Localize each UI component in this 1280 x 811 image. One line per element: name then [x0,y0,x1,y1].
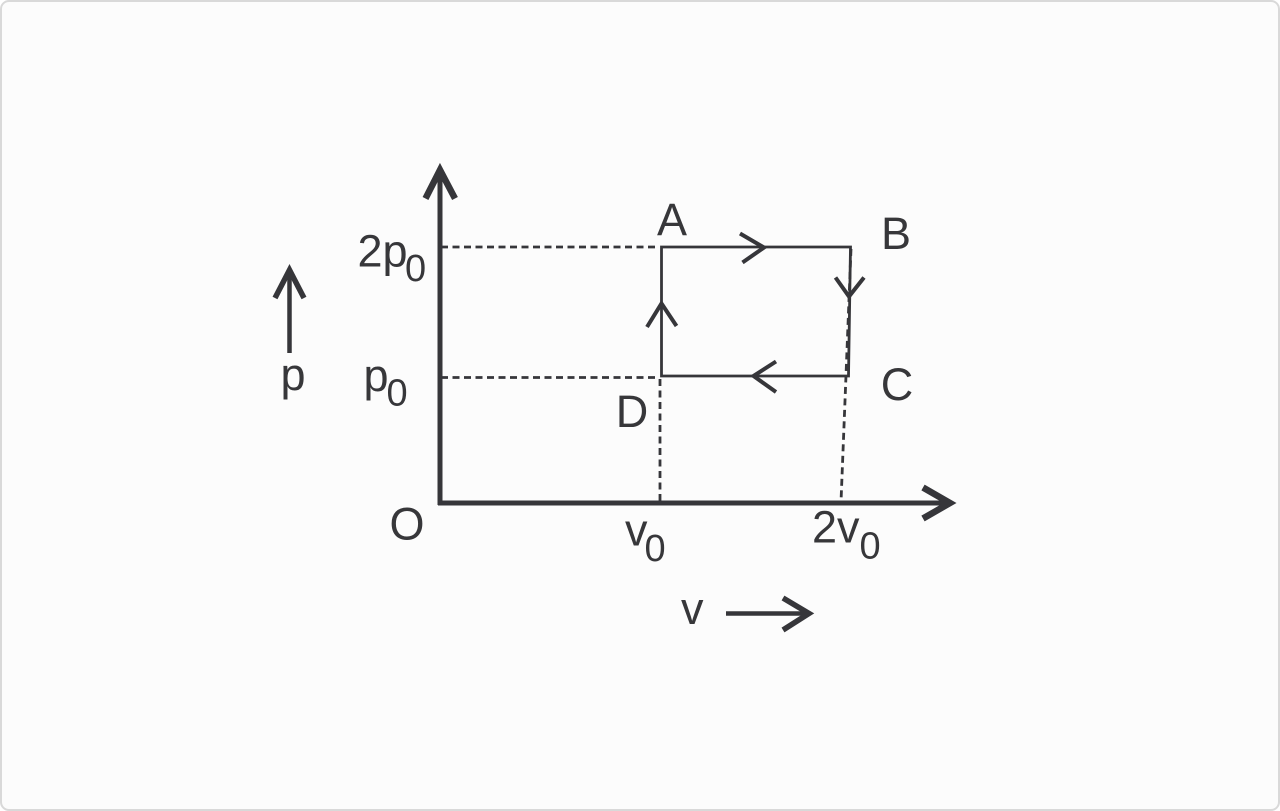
svg-text:v: v [681,583,704,634]
v axis arrow [726,598,809,630]
svg-text:0: 0 [405,248,426,290]
svg-text:A: A [657,194,687,245]
svg-text:p: p [281,349,306,400]
dashed line v0 [659,379,662,502]
arrow C to D [754,362,777,393]
dashed line 2p0 level [441,246,659,249]
svg-text:2v: 2v [812,502,860,553]
arrow B to C [836,278,865,297]
svg-text:0: 0 [387,373,408,415]
cycle rectangle ABCD [662,247,851,376]
svg-text:0: 0 [860,526,881,568]
svg-text:C: C [881,359,914,410]
p axis arrow [275,270,304,353]
svg-text:p: p [364,350,389,401]
dashed line 2v0 [841,249,851,502]
svg-text:B: B [881,208,911,259]
x-axis (v axis) [438,488,950,519]
dashed line p0 level [441,376,657,379]
arrow A to B [740,234,764,263]
svg-text:O: O [389,499,424,550]
svg-text:0: 0 [645,528,666,570]
arrow D to A [647,304,677,328]
y-axis (p axis) [426,170,456,505]
svg-text:D: D [616,386,649,437]
svg-text:2p: 2p [358,226,408,277]
